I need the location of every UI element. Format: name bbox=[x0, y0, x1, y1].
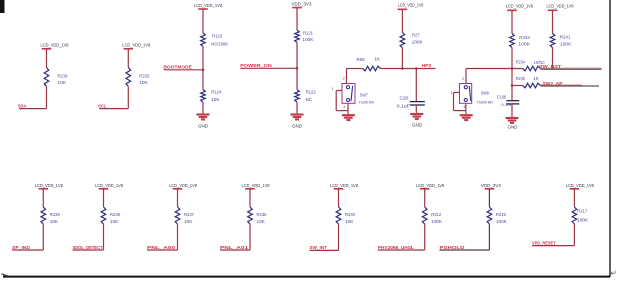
power rail LCD_VDD_1V8 (bottom 6) bbox=[416, 183, 444, 191]
svg-text:100K: 100K bbox=[560, 42, 572, 47]
ground (C28) bbox=[410, 112, 423, 127]
wire SW8 pin3 to ground bbox=[465, 103, 467, 113]
svg-text:LCD_VDD_1V8: LCD_VDD_1V8 bbox=[416, 183, 444, 188]
svg-text:GND: GND bbox=[508, 125, 518, 130]
svg-text:R217: R217 bbox=[577, 209, 588, 214]
wire rail to R238 bbox=[103, 189, 105, 207]
svg-text:VDD_3V3: VDD_3V3 bbox=[292, 1, 312, 6]
ground (divider 2) bbox=[291, 113, 304, 129]
svg-text:HPS: HPS bbox=[422, 63, 432, 68]
svg-text:2: 2 bbox=[462, 77, 464, 81]
net label PHY2098_UHSL bbox=[378, 245, 414, 250]
wire R237 to net PNL_A00 bbox=[147, 224, 178, 250]
svg-text:NC/100K: NC/100K bbox=[211, 41, 228, 46]
svg-text:SDA: SDA bbox=[18, 103, 27, 108]
svg-text:2: 2 bbox=[343, 76, 345, 80]
ground (divider 1) bbox=[197, 113, 210, 129]
wire SW7 pin1 loop bbox=[336, 91, 348, 111]
power rail VDD_3V3 (bottom 7) bbox=[481, 183, 501, 191]
resistor R122 NC bbox=[295, 90, 317, 103]
wire SW_RST out bbox=[541, 68, 602, 69]
svg-text:100K: 100K bbox=[431, 219, 442, 224]
svg-text:10K: 10K bbox=[345, 219, 354, 224]
svg-text:R220: R220 bbox=[139, 73, 150, 78]
resistor R235 1K bbox=[516, 76, 541, 88]
svg-text:LCD_VDD_1V8: LCD_VDD_1V8 bbox=[506, 4, 533, 9]
capacitor C28 0.1uF bbox=[397, 96, 425, 109]
resistor R124 10K bbox=[201, 90, 222, 103]
svg-text:LCD_VDD_1V8: LCD_VDD_1V8 bbox=[194, 3, 222, 8]
svg-text:SW8: SW8 bbox=[481, 91, 490, 96]
wire rail to R241 bbox=[552, 11, 554, 34]
switch SW7 TS300-BN bbox=[342, 84, 374, 105]
svg-text:PSHOLD: PSHOLD bbox=[440, 245, 466, 250]
wire R241 to SW_RST net bbox=[551, 48, 554, 70]
power rail LCD_VDD_1V8 (R27) bbox=[398, 3, 424, 12]
svg-text:↵: ↵ bbox=[611, 269, 617, 278]
resistor R240 10K bbox=[336, 207, 355, 224]
svg-text:R123: R123 bbox=[212, 34, 223, 39]
svg-text:SP_IND: SP_IND bbox=[12, 245, 31, 250]
resistor R233 100K bbox=[510, 34, 531, 48]
svg-text:100K: 100K bbox=[412, 40, 423, 45]
resistor R234 1K/NC bbox=[516, 60, 545, 71]
wire C168 to ground bbox=[511, 104, 513, 116]
power rail LCD_VDD_1V8 (bottom 8) bbox=[566, 183, 594, 191]
wire R215 to net PSHOLD bbox=[440, 224, 490, 250]
net label SW_RST bbox=[539, 64, 561, 69]
net label SCL bbox=[98, 103, 107, 108]
wire SW8 top bbox=[465, 69, 467, 84]
wire rail to R217 bbox=[573, 189, 575, 207]
wire R236 to net PNL_A01 bbox=[220, 224, 250, 250]
power rail LCD_VDD_1V8 (R233) bbox=[506, 4, 533, 12]
node BOOTMODE junction bbox=[202, 69, 205, 72]
svg-text:PNL_A01: PNL_A01 bbox=[220, 245, 249, 250]
wire HPS horizontal bbox=[381, 68, 436, 70]
svg-text:100K: 100K bbox=[577, 218, 588, 223]
node POWER_ON junction bbox=[296, 67, 299, 70]
svg-text:BOOTMODE: BOOTMODE bbox=[164, 65, 192, 70]
resistor R236 10K bbox=[248, 207, 267, 224]
svg-text:R239: R239 bbox=[50, 212, 61, 217]
wire SW2_AP out bbox=[541, 84, 600, 87]
svg-text:1K: 1K bbox=[533, 76, 539, 81]
net label HPS bbox=[422, 63, 432, 68]
power rail LCD_VDD_1V8 (R241) bbox=[547, 4, 574, 12]
wire rail to R212 bbox=[424, 189, 426, 207]
wire rail to R27 bbox=[401, 10, 403, 33]
svg-text:100K: 100K bbox=[518, 42, 530, 47]
wire rail to R236 bbox=[249, 189, 251, 207]
svg-text:R59: R59 bbox=[357, 57, 366, 62]
svg-text:1: 1 bbox=[332, 87, 334, 91]
svg-text:10K: 10K bbox=[211, 97, 220, 102]
pin 1 label SW8 bbox=[451, 91, 453, 95]
svg-text:R121: R121 bbox=[303, 30, 314, 35]
ground (SW8) bbox=[460, 113, 473, 120]
svg-text:R241: R241 bbox=[560, 35, 571, 40]
wire R233 to switch node bbox=[511, 48, 513, 69]
power rail LCD_VDD_1V8 (bottom 2) bbox=[95, 183, 123, 191]
wire rail to R220 bbox=[127, 49, 129, 67]
wire rail to R121 bbox=[296, 8, 298, 30]
svg-text:NC: NC bbox=[306, 97, 313, 102]
svg-text:R218: R218 bbox=[58, 73, 69, 78]
wire C28 to ground bbox=[415, 105, 417, 112]
net label SW2_AP bbox=[543, 81, 563, 86]
svg-text:C168: C168 bbox=[497, 94, 507, 99]
resistor R212 100K bbox=[422, 207, 442, 224]
wire R212 to net PHY2098_UHSL bbox=[378, 224, 425, 250]
svg-text:3: 3 bbox=[463, 105, 465, 109]
svg-text:GND: GND bbox=[198, 123, 208, 128]
power rail LCD_VDD_1V8 (bottom 5) bbox=[330, 183, 358, 191]
svg-text:GND: GND bbox=[412, 122, 422, 127]
ground (SW7) bbox=[342, 113, 355, 120]
svg-text:SW7: SW7 bbox=[360, 93, 369, 98]
wire R240 to net SW_INT bbox=[309, 224, 338, 250]
net label VPD_RESET bbox=[532, 240, 556, 245]
svg-text:LCD_VDD_1V8: LCD_VDD_1V8 bbox=[330, 183, 358, 188]
net label SDOL_DETECT bbox=[73, 245, 103, 250]
switch SW8 TS300-BN bbox=[460, 84, 494, 105]
pin 3 label SW7 bbox=[343, 105, 345, 109]
power rail VDD_3V3 (divider 2) bbox=[292, 1, 312, 9]
wire R239 to net SP_IND bbox=[12, 224, 43, 250]
wire rail to R215 bbox=[488, 189, 490, 207]
svg-text:10K: 10K bbox=[110, 219, 119, 224]
wire SW8 node horizontal bbox=[466, 67, 523, 70]
svg-text:R122: R122 bbox=[306, 90, 317, 95]
svg-text:R238: R238 bbox=[110, 212, 121, 217]
svg-text:LCD_VDD_1V8: LCD_VDD_1V8 bbox=[169, 183, 197, 188]
node HPS junction bbox=[401, 67, 404, 70]
svg-text:3: 3 bbox=[343, 105, 345, 109]
svg-text:LCD_VDD_1V8: LCD_VDD_1V8 bbox=[41, 43, 69, 48]
svg-text:R236: R236 bbox=[257, 212, 268, 217]
wire node to R122 bbox=[296, 68, 298, 89]
resistor R239 10K bbox=[41, 207, 60, 224]
svg-text:1K: 1K bbox=[375, 57, 381, 62]
wire R218 to SDA node bbox=[19, 87, 47, 109]
svg-text:C28: C28 bbox=[400, 96, 409, 101]
svg-text:R237: R237 bbox=[184, 212, 195, 217]
wire rail to R233 bbox=[511, 11, 513, 34]
resistor R217 100K bbox=[572, 207, 588, 224]
wire R217 to net VPD_RESET bbox=[532, 224, 574, 246]
svg-text:10K: 10K bbox=[50, 219, 59, 224]
svg-text:SW_INT: SW_INT bbox=[309, 245, 327, 250]
pin 2 label SW7 bbox=[343, 76, 345, 80]
svg-text:SDOL_DETECT: SDOL_DETECT bbox=[73, 245, 103, 250]
svg-text:GND: GND bbox=[292, 123, 302, 128]
resistor R59 1K bbox=[357, 57, 381, 71]
svg-text:R234: R234 bbox=[516, 60, 526, 65]
power rail LCD_VDD_1V8 (bottom 1) bbox=[35, 183, 63, 191]
wire POWER_ON tap bbox=[240, 67, 297, 69]
wire rail to R237 bbox=[177, 189, 179, 207]
svg-text:R233: R233 bbox=[519, 35, 530, 40]
resistor R218 10K bbox=[44, 68, 68, 87]
net label PNL_A00 bbox=[147, 245, 176, 250]
power rail LCD_VDD_1V8 (P1) bbox=[41, 43, 69, 51]
svg-text:10K: 10K bbox=[257, 219, 266, 224]
resistor R27 100K bbox=[400, 33, 423, 48]
svg-text:TS300-BN: TS300-BN bbox=[477, 99, 494, 104]
svg-text:10K: 10K bbox=[184, 219, 193, 224]
capacitor C168 0.1uF bbox=[497, 94, 520, 107]
resistor R220 10K bbox=[126, 68, 150, 87]
wire BOOTMODE tap bbox=[164, 69, 204, 71]
wire SW7 pin3 to ground bbox=[347, 103, 349, 113]
resistor R123 NC/100K bbox=[201, 33, 229, 47]
ground (C168) bbox=[506, 116, 519, 130]
net label SP_IND bbox=[12, 245, 31, 250]
svg-text:LCD_VDD_1V8: LCD_VDD_1V8 bbox=[242, 183, 270, 188]
svg-text:1: 1 bbox=[451, 91, 453, 95]
svg-text:VPD_RESET: VPD_RESET bbox=[532, 240, 556, 245]
svg-text:VDD_3V3: VDD_3V3 bbox=[481, 183, 501, 188]
net label SDA bbox=[18, 103, 27, 108]
svg-text:LCD_VDD_1V8: LCD_VDD_1V8 bbox=[547, 4, 574, 9]
wire HPS to C28 bbox=[415, 67, 418, 101]
power rail LCD_VDD_1V8 (divider 1) bbox=[194, 3, 222, 11]
svg-text:SW_RST: SW_RST bbox=[539, 64, 561, 69]
pin 2 label SW8 bbox=[462, 77, 464, 81]
svg-text:LCD_VDD_1V8: LCD_VDD_1V8 bbox=[35, 183, 63, 188]
resistor R241 100K bbox=[550, 34, 571, 48]
svg-text:10K: 10K bbox=[139, 80, 148, 85]
net label POWER_ON bbox=[240, 63, 272, 68]
wire R238 to net SDOL_DETECT bbox=[73, 224, 104, 250]
svg-text:LCD_VDD_1V8: LCD_VDD_1V8 bbox=[122, 43, 150, 48]
resistor R121 100K bbox=[295, 30, 314, 43]
wire R123 to node BOOTMODE bbox=[202, 47, 204, 70]
wire SW8 pin1 loop bbox=[454, 93, 466, 111]
pin 1 label SW7 bbox=[332, 87, 334, 91]
svg-text:SCL: SCL bbox=[98, 103, 107, 108]
svg-text:R124: R124 bbox=[211, 90, 222, 95]
svg-text:0.1uF: 0.1uF bbox=[397, 104, 410, 109]
net label PNL_A01 bbox=[220, 245, 249, 250]
svg-text:PNL_A00: PNL_A00 bbox=[147, 245, 176, 250]
svg-text:100K: 100K bbox=[496, 219, 507, 224]
wire node to R235 bbox=[511, 69, 523, 101]
wire rail to R218 bbox=[46, 49, 48, 67]
resistor R215 100K bbox=[487, 207, 507, 224]
net label PSHOLD bbox=[440, 245, 466, 250]
resistor R238 10K bbox=[101, 207, 120, 224]
net label BOOTMODE bbox=[164, 65, 192, 70]
svg-text:LCD_VDD_1V8: LCD_VDD_1V8 bbox=[398, 3, 424, 8]
svg-text:TS300-BN: TS300-BN bbox=[359, 99, 375, 104]
wire R121 to node POWER_ON bbox=[296, 43, 298, 69]
wire rail to R239 bbox=[42, 189, 44, 207]
wire rail to R240 bbox=[338, 189, 340, 207]
pin 3 label SW8 bbox=[463, 105, 465, 109]
wire node to R124 bbox=[202, 70, 204, 90]
wire R124 to ground bbox=[202, 102, 204, 113]
svg-text:POWER_ON: POWER_ON bbox=[240, 63, 272, 68]
svg-text:R215: R215 bbox=[496, 212, 507, 217]
svg-text:SW2_AP: SW2_AP bbox=[543, 81, 563, 86]
resistor R237 10K bbox=[175, 207, 194, 224]
power rail LCD_VDD_1V8 (bottom 3) bbox=[169, 183, 197, 191]
svg-text:R235: R235 bbox=[516, 76, 526, 81]
wire R27 to node HPS bbox=[401, 48, 403, 69]
svg-text:R212: R212 bbox=[431, 212, 442, 217]
svg-text:100K: 100K bbox=[302, 37, 313, 42]
svg-text:PHY2098_UHSL: PHY2098_UHSL bbox=[378, 245, 414, 250]
power rail LCD_VDD_1V8 (P2) bbox=[122, 43, 150, 51]
svg-text:0.1uF: 0.1uF bbox=[501, 102, 513, 107]
svg-text:LCD_VDD_1V8: LCD_VDD_1V8 bbox=[566, 183, 594, 188]
svg-text:LCD_VDD_1V8: LCD_VDD_1V8 bbox=[95, 183, 123, 188]
svg-text:R240: R240 bbox=[345, 212, 356, 217]
wire R122 to ground bbox=[296, 102, 298, 113]
wire R220 to SCL node bbox=[99, 87, 128, 109]
wire R59 to SW7 bbox=[347, 69, 363, 84]
svg-text:10K: 10K bbox=[58, 80, 67, 85]
svg-text:R27: R27 bbox=[412, 33, 420, 38]
net label SW_INT bbox=[309, 245, 327, 250]
wire rail to R123 bbox=[202, 10, 204, 33]
power rail LCD_VDD_1V8 (bottom 4) bbox=[242, 183, 270, 191]
